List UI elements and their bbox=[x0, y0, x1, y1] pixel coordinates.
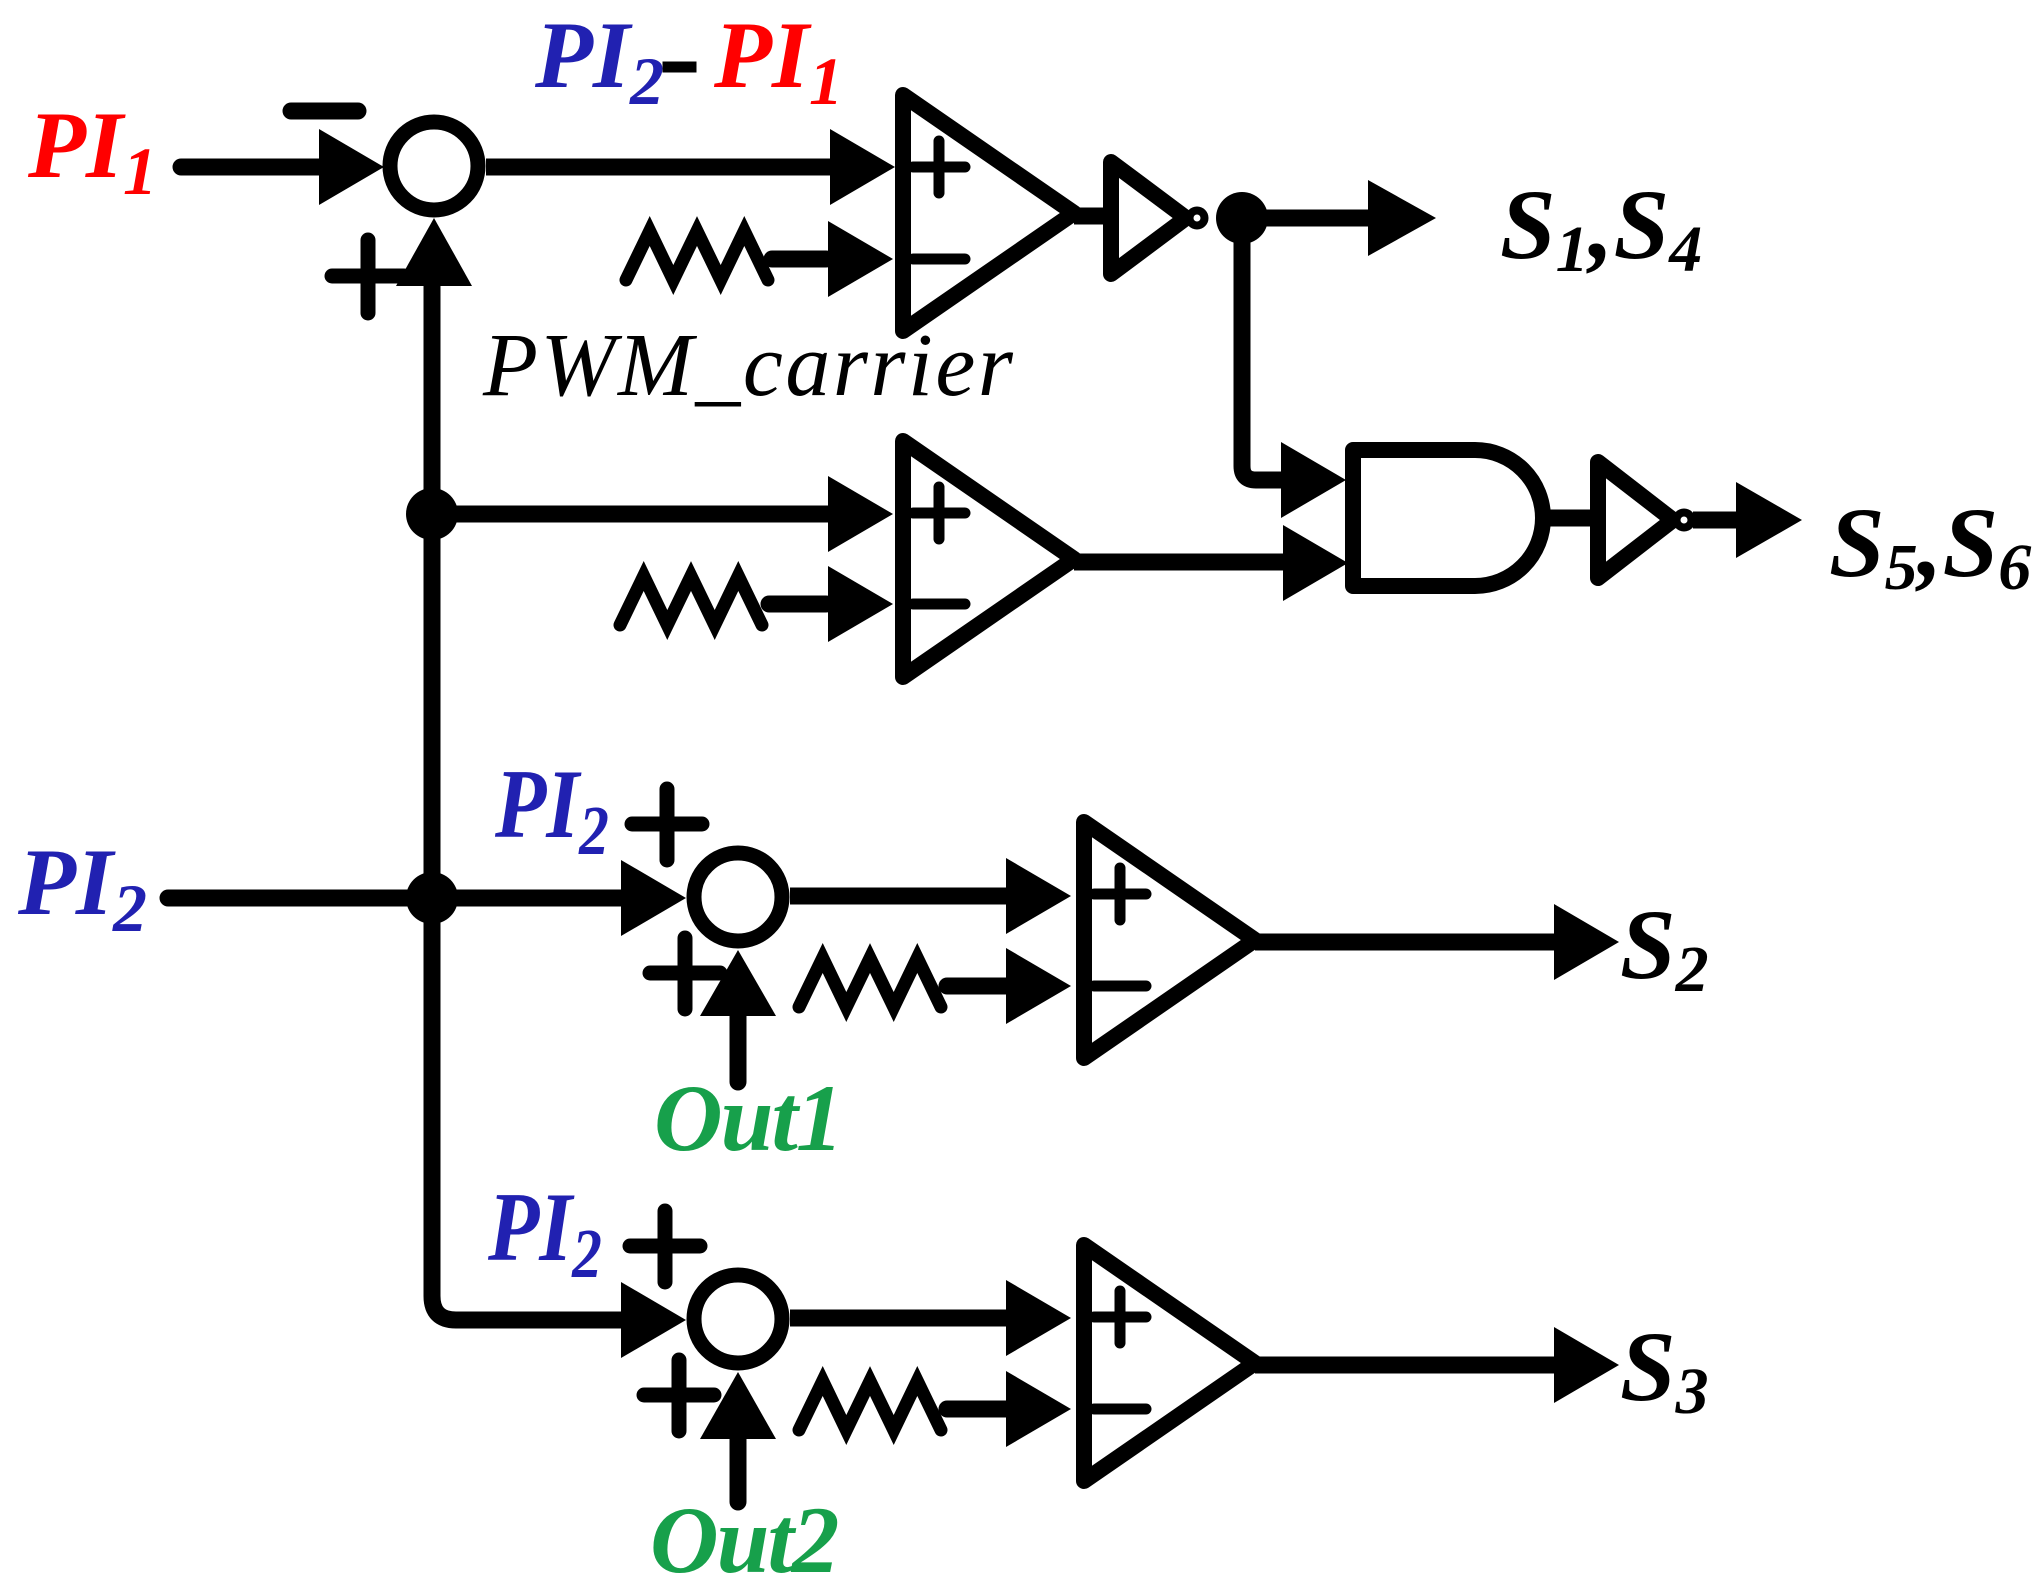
arrowhead into U1 minus input bbox=[828, 221, 893, 297]
wire Out1 vertical bbox=[730, 1014, 747, 1082]
arrowhead output S3 bbox=[1554, 1327, 1619, 1403]
minus pin U2 bbox=[913, 599, 965, 610]
AND gate G1 bbox=[1353, 450, 1543, 586]
wire U3 output to S2 arrow bbox=[1255, 934, 1556, 951]
arrowhead output S1,S4 bbox=[1368, 180, 1436, 256]
wire W4 stub bbox=[947, 1401, 1006, 1418]
wire W3 stub bbox=[947, 978, 1006, 995]
arrowhead into U1 plus input bbox=[830, 129, 895, 205]
wire G1 output to inverter N2 bbox=[1543, 510, 1600, 527]
plus pin U2 bbox=[913, 487, 965, 539]
wire PI2 input bbox=[168, 890, 621, 907]
plus pin U3 bbox=[1094, 868, 1146, 920]
node C (junction dot on trunk, PI2 row) bbox=[406, 872, 458, 924]
wire node A down to AND gate G1 upper input bbox=[1242, 240, 1281, 480]
carrier symbol W4 (triangle wave) bbox=[799, 1381, 941, 1430]
wire SJ3 to comparator U4 bbox=[790, 1310, 1008, 1327]
minus pin U3 bbox=[1094, 981, 1146, 992]
arrowhead Out2 into SJ3 bottom bbox=[700, 1372, 776, 1439]
arrowhead into U4 plus input bbox=[1006, 1280, 1071, 1356]
sign plus at SJ1 bbox=[332, 240, 404, 313]
wire N2 to S5,S6 arrow bbox=[1693, 512, 1738, 529]
arrowhead into U2 plus input bbox=[828, 476, 893, 552]
arrowhead PI1 into summing junction SJ1 bbox=[319, 129, 384, 205]
arrowhead into summing junction SJ3 bbox=[621, 1282, 686, 1358]
svg-text:PWM_carrier: PWM_carrier bbox=[482, 316, 1015, 415]
carrier symbol W1 (triangle wave) bbox=[626, 231, 768, 280]
sign minus at SJ1 bbox=[291, 103, 358, 120]
comparator U1 bbox=[903, 95, 1074, 331]
inverter N2 bbox=[1598, 462, 1673, 578]
arrowhead into U2 minus input bbox=[828, 566, 893, 642]
wire W2 stub bbox=[769, 596, 826, 613]
label PI2 above SJ3 bbox=[487, 1172, 602, 1294]
wire U2 output to G1 lower input bbox=[1074, 554, 1285, 571]
arrowhead into summing junction SJ2 bbox=[621, 860, 686, 936]
plus pin U1 bbox=[913, 141, 965, 193]
arrowhead into U3 plus input bbox=[1006, 858, 1071, 934]
comparator U3 bbox=[1084, 822, 1255, 1058]
arrowhead into G1 upper input bbox=[1281, 442, 1346, 518]
wire SJ1 to comparator U1 bbox=[486, 159, 830, 176]
node B (junction dot on trunk, row 2) bbox=[406, 488, 458, 540]
sign plus upper at SJ3 bbox=[630, 1211, 700, 1282]
svg-text:Out1: Out1 bbox=[654, 1065, 841, 1171]
minus pin U1 bbox=[913, 254, 965, 265]
wire node B to comparator U2 bbox=[432, 506, 828, 523]
node A (junction dot after N1) bbox=[1216, 192, 1268, 244]
arrowhead output S5,S6 bbox=[1736, 482, 1802, 558]
summing junction SJ1 bbox=[390, 122, 478, 210]
wire vertical trunk PWM_carrier bbox=[432, 282, 650, 1320]
arrowhead into U3 minus input bbox=[1006, 948, 1071, 1024]
sign plus upper at SJ2 bbox=[632, 789, 702, 860]
carrier symbol W3 (triangle wave) bbox=[799, 958, 941, 1007]
arrowhead into G1 lower input bbox=[1283, 525, 1348, 601]
arrowhead Out1 into SJ2 bottom bbox=[700, 950, 776, 1016]
wire SJ2 to comparator U3 bbox=[790, 888, 1008, 905]
wire Out2 vertical bbox=[730, 1437, 747, 1502]
summing junction SJ3 bbox=[694, 1275, 782, 1363]
bubble N1 bbox=[1190, 211, 1205, 226]
carrier symbol W2 (triangle wave) bbox=[620, 576, 762, 625]
summing junction SJ2 bbox=[694, 853, 782, 941]
wire node A to S1,S4 arrow bbox=[1242, 210, 1370, 227]
label PI2 above SJ2 bbox=[494, 749, 609, 871]
svg-text:Out2: Out2 bbox=[650, 1487, 838, 1590]
wire U4 output to S3 arrow bbox=[1255, 1357, 1556, 1374]
comparator U2 bbox=[903, 441, 1074, 677]
bubble N2 bbox=[1677, 513, 1692, 528]
arrowhead output S2 bbox=[1554, 904, 1619, 980]
wire U1 output to inverter N1 bbox=[1074, 208, 1111, 225]
plus pin U4 bbox=[1094, 1291, 1146, 1343]
arrowhead into U4 minus input bbox=[1006, 1371, 1071, 1447]
wire PI1 input bbox=[181, 159, 322, 176]
inverter N1 bbox=[1111, 162, 1186, 274]
wire W1 stub bbox=[772, 251, 826, 268]
minus pin U4 bbox=[1094, 1404, 1146, 1415]
sign plus lower at SJ3 bbox=[644, 1360, 714, 1431]
arrowhead PWM carrier into SJ1 bottom bbox=[396, 218, 472, 286]
sign plus lower at SJ2 bbox=[650, 938, 720, 1009]
comparator U4 bbox=[1084, 1245, 1255, 1481]
